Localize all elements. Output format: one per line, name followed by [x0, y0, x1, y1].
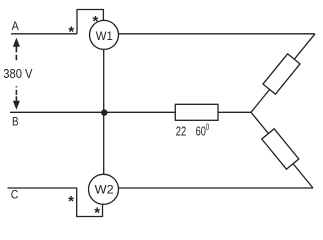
wire diagonal A to star node: [251, 34, 315, 113]
svg-text:*: *: [68, 23, 74, 40]
voltage arrow up (380 V dimension): [14, 39, 20, 60]
wire phase C right segment: [119, 187, 314, 189]
resistor Z_C on diagonal: [262, 129, 299, 169]
wire phase C left segment: [8, 187, 78, 189]
junction dot on B: [101, 109, 107, 115]
wire phase A right segment: [119, 33, 316, 35]
wire phase B left segment: [10, 111, 175, 113]
svg-text:A: A: [12, 19, 19, 33]
op wattmeter W1: [90, 20, 119, 49]
wire phase A left segment: [11, 33, 77, 35]
svg-text:*: *: [68, 193, 74, 210]
svg-text:C: C: [11, 188, 19, 202]
svg-text:B: B: [12, 114, 19, 128]
svg-text:60: 60: [196, 123, 206, 138]
wire diagonal C to star node: [251, 112, 313, 188]
svg-text:0: 0: [206, 122, 210, 132]
wattmeter W1 current-coil bracket: [77, 10, 103, 34]
wire W1 voltage coil to node on B: [103, 49, 105, 174]
resistor Z_A on diagonal: [263, 54, 300, 94]
svg-text:W1: W1: [96, 29, 113, 43]
wire B resistor to star node: [218, 111, 251, 113]
op wattmeter W2: [89, 174, 119, 204]
svg-text:22: 22: [176, 123, 186, 138]
svg-text:*: *: [94, 204, 100, 221]
voltage arrow down (380 V dimension): [14, 86, 20, 108]
wattmeter W2 current-coil bracket: [77, 188, 103, 217]
svg-text:W2: W2: [95, 183, 114, 197]
resistor Z_B 22 60deg: [175, 104, 218, 120]
svg-text:380 V: 380 V: [3, 66, 33, 81]
